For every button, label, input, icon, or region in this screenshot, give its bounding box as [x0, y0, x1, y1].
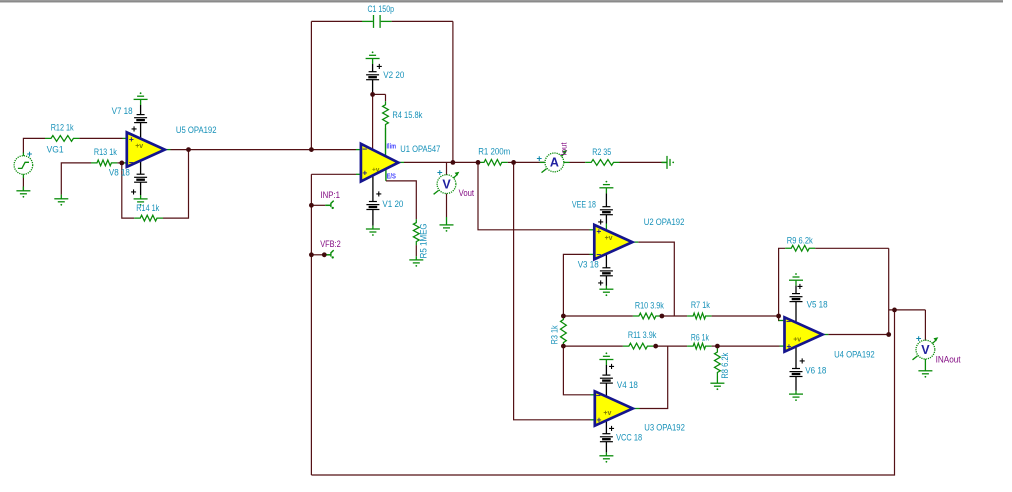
pin VFB [331, 250, 334, 258]
wire R11 to R6 [653, 345, 687, 347]
svg-text:V6 18: V6 18 [805, 366, 826, 376]
wire pin column down [310, 174, 312, 475]
ground above V2 [366, 51, 380, 58]
wire U5 to V8 [140, 160, 142, 174]
svg-text:+: + [916, 333, 922, 344]
battery V1 [366, 202, 379, 210]
wire output to R1 [447, 161, 479, 163]
V4 plus mark [609, 362, 615, 373]
U5 input markers [129, 134, 143, 168]
battery V6 [790, 369, 803, 377]
svg-text:+: + [131, 188, 137, 199]
node INP junction [309, 203, 314, 208]
label VFB:2 [320, 239, 341, 249]
wire ammeter to R2 [564, 161, 585, 163]
ground under V1 [366, 229, 380, 236]
ground under VCC [599, 456, 613, 463]
V7 plus mark [131, 125, 137, 136]
wire E/S pin [386, 169, 416, 220]
label V8 18 [109, 168, 130, 178]
wire U2 to V3 [605, 254, 607, 268]
node V2/R4 junction [370, 92, 375, 97]
label Vout [459, 188, 475, 198]
label R6 1k [691, 332, 709, 342]
battery V7 [134, 115, 147, 123]
wire ground to R13 [61, 163, 91, 199]
resistor R9 [785, 245, 815, 251]
svg-text:+v: +v [135, 143, 143, 150]
svg-text:Iout: Iout [559, 142, 569, 156]
node R11 right junction [653, 344, 658, 349]
ground under V6 [789, 394, 803, 401]
wire V3 to ground [605, 276, 607, 289]
label R1 200m [478, 147, 510, 157]
svg-text:R6 1k: R6 1k [691, 332, 709, 342]
battery V4 [600, 375, 613, 383]
svg-text:+: + [598, 279, 604, 290]
ammeter Iout [542, 150, 568, 173]
svg-text:−: − [129, 158, 134, 168]
ground under V3 [599, 289, 613, 296]
label INP:1 [321, 190, 341, 200]
resistor R11 [623, 343, 654, 349]
svg-text:+v: +v [603, 410, 611, 417]
label R14 1k [136, 203, 159, 213]
wire R9 left leg [779, 248, 786, 316]
wire ground to VEE [605, 188, 607, 207]
wire V6 to ground [795, 377, 797, 394]
VCC plus mark [609, 424, 615, 435]
svg-text:V7 18: V7 18 [112, 106, 133, 116]
wire R9 to output leg [815, 247, 889, 249]
label V3 18 [578, 260, 599, 270]
ground under V8 [134, 199, 148, 206]
V8 plus mark [131, 188, 137, 199]
battery V5 [790, 294, 803, 302]
node R10 left junction [561, 314, 566, 319]
label R11 3.9k [628, 330, 657, 340]
ground under R5 [409, 260, 423, 267]
node U4 output junction [886, 332, 891, 337]
wire U3 output [632, 346, 667, 408]
battery VEE [600, 207, 613, 215]
wire VG1 bottom [22, 178, 24, 191]
wire R10 to R7 [662, 315, 687, 317]
wire R6 to U4 +in [712, 345, 785, 347]
wire VG1 to R12 [23, 138, 45, 153]
svg-text:+: + [376, 190, 382, 201]
svg-text:U1 OPA547: U1 OPA547 [400, 144, 440, 154]
op-amp U4 [785, 317, 823, 351]
label INAout [936, 354, 962, 364]
resistor R10 [633, 313, 662, 319]
battery V3 [600, 268, 613, 276]
svg-text:V3 18: V3 18 [578, 260, 599, 270]
label R13 1k [94, 147, 117, 157]
wire C1 left leg [310, 21, 312, 149]
wire V4 to U3 [605, 383, 607, 396]
svg-text:V8 18: V8 18 [109, 168, 130, 178]
wire U1 output [399, 161, 447, 163]
V6 plus mark [799, 356, 805, 367]
op-amp U2 [594, 225, 632, 259]
svg-text:−: − [786, 316, 791, 326]
label R4 15.8k [392, 110, 423, 120]
wire V2 to junction [372, 80, 374, 95]
ground R13 [54, 199, 68, 206]
svg-text:R1 200m: R1 200m [478, 147, 510, 157]
resistor R1 [478, 160, 508, 166]
wire C1 right leg [452, 21, 454, 162]
label VEE 18 [572, 200, 596, 210]
svg-text:Ilim: Ilim [387, 144, 397, 151]
node VFB junction [309, 252, 314, 257]
node R1 left junction [476, 160, 481, 165]
label V7 18 [112, 106, 133, 116]
resistor R8 [715, 349, 721, 377]
resistor R3 [561, 316, 567, 346]
wire U1 +in to pin column [311, 173, 361, 175]
node R3 bottom junction [561, 344, 566, 349]
label U1 OPA547 [400, 144, 440, 154]
svg-text:U3 OPA192: U3 OPA192 [644, 422, 685, 432]
wire U4 -in [779, 316, 785, 321]
svg-text:V5 18: V5 18 [807, 300, 828, 310]
wire ground to V2 [372, 59, 374, 72]
svg-text:V1 20: V1 20 [382, 199, 403, 209]
wire U3 -in [563, 346, 595, 395]
node U5 feedback junction [186, 147, 191, 152]
U1 input markers [362, 144, 379, 178]
svg-text:V: V [442, 177, 451, 191]
wire R13 to U5 -in [117, 162, 126, 164]
window top border [0, 0, 1003, 2]
svg-text:R9 6.2k: R9 6.2k [787, 236, 814, 246]
svg-text:R12 1k: R12 1k [51, 122, 74, 132]
wire R7 to U4 node [712, 315, 779, 317]
svg-text:V2 20: V2 20 [383, 70, 404, 80]
label R8 6.2k [720, 352, 730, 379]
svg-text:+: + [131, 125, 137, 136]
label V6 18 [805, 366, 826, 376]
svg-text:R8 6.2k: R8 6.2k [720, 352, 730, 379]
svg-text:−: − [596, 250, 601, 260]
svg-text:A: A [550, 156, 559, 170]
svg-text:R13 1k: R13 1k [94, 147, 117, 157]
svg-text:Vout: Vout [459, 188, 475, 198]
resistor R5 [413, 219, 419, 245]
svg-text:R3 1k: R3 1k [550, 325, 560, 344]
wire U2 output [633, 242, 675, 316]
node INAout branch junction [892, 308, 897, 313]
resistor R12 [45, 136, 79, 142]
U2 input markers [596, 226, 612, 260]
svg-text:+: + [596, 226, 601, 236]
wire junction to R4 [373, 94, 386, 101]
wire V2 junction to U1 supply [372, 94, 374, 150]
label V5 18 [807, 300, 828, 310]
op-amp U1 [361, 144, 398, 182]
wire R8 to ground [716, 376, 718, 383]
wire R1 left to U2 +in [478, 162, 594, 229]
label E/S pin [387, 173, 397, 180]
svg-text:+: + [537, 153, 543, 164]
label V4 18 [617, 380, 638, 390]
resistor R13 [91, 160, 117, 166]
wire bottom feedback [311, 310, 894, 475]
node R1 right junction [511, 160, 516, 165]
label R7 1k [691, 300, 710, 310]
svg-text:U5 OPA192: U5 OPA192 [176, 125, 217, 135]
node VFB spur dot [322, 252, 327, 257]
svg-text:+: + [797, 282, 803, 293]
ground above V5 [789, 273, 803, 280]
wire R14 to U5 output [163, 150, 189, 219]
ground right of R2 [667, 156, 674, 169]
wire Vout tap [446, 162, 448, 175]
wire V1 to ground [372, 210, 374, 229]
svg-text:+: + [609, 424, 615, 435]
wire V5 to U4 [795, 302, 797, 324]
voltmeter INAout [913, 337, 939, 360]
svg-text:R14 1k: R14 1k [136, 203, 159, 213]
wire R5 to ground [415, 245, 417, 260]
label R9 6.2k [787, 236, 814, 246]
wire R12 to U5 +in [79, 137, 126, 139]
label C1 150p [368, 4, 395, 14]
svg-text:+: + [376, 62, 382, 73]
wire ground to V4 [605, 360, 607, 376]
voltmeter Vout [434, 172, 460, 195]
V1 plus mark [376, 190, 382, 201]
wire R2 to ground [620, 161, 668, 163]
wire U5 output to U1 [165, 149, 361, 151]
svg-text:R4 15.8k: R4 15.8k [392, 110, 423, 120]
svg-text:U2 OPA192: U2 OPA192 [644, 217, 685, 227]
svg-text:VG1: VG1 [47, 145, 64, 155]
label R2 35 [592, 147, 611, 157]
wire U3 to VCC [605, 421, 607, 434]
wire ground to V7 [140, 99, 142, 114]
wire C1 top right [392, 20, 453, 22]
wire INP spur [311, 204, 331, 206]
ground under R8 [710, 383, 724, 390]
resistor R14 [134, 215, 163, 221]
resistor R7 [687, 313, 712, 319]
wire Vout to ground [446, 194, 448, 225]
svg-text:R5 1MEG: R5 1MEG [418, 223, 428, 258]
resistor R2 [585, 160, 619, 166]
wire U4 output [823, 334, 889, 336]
wire output to INAout [889, 310, 926, 341]
ground above V4 [599, 352, 613, 359]
wire VEE to U2 [605, 215, 607, 230]
svg-text:VFB:2: VFB:2 [320, 239, 341, 249]
V2 plus mark [376, 62, 382, 73]
battery V2 [366, 72, 379, 80]
svg-text:−: − [596, 390, 601, 400]
svg-text:+: + [609, 362, 615, 373]
label R12 1k [51, 122, 74, 132]
svg-text:V: V [921, 343, 930, 357]
node R10 right junction [660, 314, 665, 319]
wire ground to V5 [795, 280, 797, 293]
U4 input markers [786, 316, 801, 351]
label VCC 18 [616, 432, 642, 442]
svg-text:INP:1: INP:1 [321, 190, 341, 200]
svg-text:+v: +v [372, 167, 380, 174]
wire to R11 [563, 345, 623, 347]
wire R9 right leg [888, 248, 890, 334]
voltage source VG1 [14, 149, 33, 178]
label U5 OPA192 [176, 125, 217, 135]
svg-text:C1 150p: C1 150p [368, 4, 395, 14]
node R8 junction [715, 344, 720, 349]
INAout plus mark [916, 333, 922, 344]
wire VCC to ground [605, 442, 607, 456]
wire V8 to ground [140, 182, 142, 199]
capacitor C1 [362, 15, 392, 28]
op-amp U3 [595, 391, 633, 425]
node R13/U5 junction [119, 161, 124, 166]
V5 plus mark [797, 282, 803, 293]
ammeter plus mark [537, 153, 543, 164]
ground above V7 [134, 92, 148, 99]
ground under VG1 [16, 191, 30, 198]
pin INP [331, 201, 334, 209]
label Iout [559, 142, 569, 156]
svg-text:+v: +v [793, 336, 801, 343]
battery VCC [600, 434, 613, 442]
svg-text:R10 3.9k: R10 3.9k [635, 301, 664, 311]
U3 input markers [596, 390, 612, 424]
resistor R6 [687, 343, 712, 349]
svg-text:VCC 18: VCC 18 [616, 432, 642, 442]
svg-text:VEE 18: VEE 18 [572, 200, 596, 210]
svg-text:R11 3.9k: R11 3.9k [628, 330, 657, 340]
wire R4 to Ilim pin [385, 128, 387, 156]
Vout plus mark [437, 167, 443, 178]
VEE plus mark [598, 218, 604, 229]
label U3 OPA192 [644, 422, 685, 432]
wire R1 to ammeter [508, 161, 545, 163]
node C1 left junction [309, 147, 314, 152]
svg-text:+: + [787, 341, 792, 351]
wire R14 feedback loop [122, 163, 134, 218]
svg-text:+: + [27, 149, 33, 160]
label R3 1k [550, 325, 560, 344]
ground under Vout [440, 225, 454, 232]
V3 plus mark [598, 279, 604, 290]
svg-text:INAout: INAout [936, 354, 962, 364]
wire U4 to V6 [795, 348, 797, 369]
svg-text:+: + [362, 168, 367, 178]
wire to R10 [563, 315, 633, 317]
label R10 3.9k [635, 301, 664, 311]
wire C1 top left [311, 20, 362, 22]
op-amp U5 [127, 132, 165, 166]
wire VFB spur [311, 254, 331, 256]
battery V8 [134, 174, 147, 182]
svg-text:V4 18: V4 18 [617, 380, 638, 390]
svg-text:+v: +v [605, 235, 613, 242]
label R5 1MEG [418, 223, 428, 258]
wire U2 -in [563, 254, 594, 316]
wire U1 to V1 [372, 176, 374, 202]
label VG1 [47, 145, 64, 155]
label V2 20 [383, 70, 404, 80]
svg-text:U4 OPA192: U4 OPA192 [834, 350, 875, 360]
label U2 OPA192 [644, 217, 685, 227]
svg-text:+: + [437, 167, 443, 178]
resistor R4 [383, 101, 389, 128]
ground above VEE [599, 181, 613, 188]
svg-text:+: + [597, 415, 602, 425]
svg-text:E/S: E/S [387, 173, 397, 180]
label Ilim pin [387, 144, 397, 151]
wire R1 right to U3 +in [514, 162, 596, 419]
svg-text:R7 1k: R7 1k [691, 300, 710, 310]
label V1 20 [382, 199, 403, 209]
node U4 -in junction [776, 314, 781, 319]
svg-text:R2 35: R2 35 [592, 147, 611, 157]
wire V7 to U5 [140, 123, 142, 140]
ground under INAout [918, 371, 932, 378]
node output/C1 junction [451, 160, 456, 165]
label U4 OPA192 [834, 350, 875, 360]
wire INAout to ground [924, 359, 926, 371]
svg-text:−: − [362, 144, 367, 154]
